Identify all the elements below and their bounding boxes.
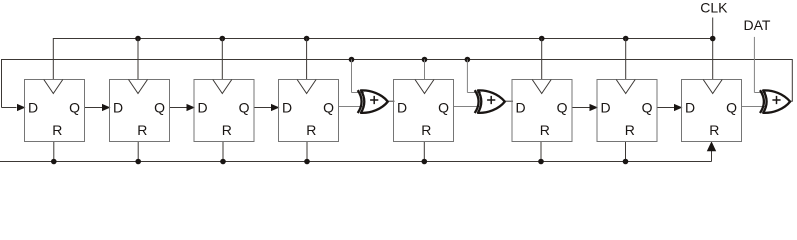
svg-text:Q: Q bbox=[69, 100, 80, 116]
wire: U7 Q output to U8 D input with arrowhead bbox=[658, 104, 683, 111]
junction on CLK bus at U2 + wire drop to U2 clock input bbox=[135, 36, 141, 80]
XOR gate G2 (between U5 and U6) with + symbol bbox=[475, 90, 505, 113]
junction on reset bus + wire stub from U2 R input bbox=[135, 142, 141, 165]
wire: U2 Q output to U3 D input with arrowhead bbox=[170, 104, 195, 111]
svg-text:D: D bbox=[198, 100, 208, 116]
svg-text:D: D bbox=[113, 100, 123, 116]
junction on reset bus + wire stub from U1 R input bbox=[51, 142, 57, 165]
svg-text:R: R bbox=[709, 122, 719, 138]
junction on CLK bus at U6 + wire drop to U6 clock input bbox=[539, 36, 545, 80]
svg-text:Q: Q bbox=[323, 100, 334, 116]
D flip-flop U8 (D, Q, R pins, clock triangle) bbox=[682, 80, 742, 142]
svg-text:D: D bbox=[601, 100, 611, 116]
wire: U1 Q output to U2 D input with arrowhead bbox=[85, 104, 111, 111]
junction on reset bus + wire stub from U5 R input bbox=[422, 142, 428, 165]
junction on reset bus + wire stub from U3 R input bbox=[220, 142, 226, 165]
wire: DAT input drop from DAT label to XOR G3 top input bbox=[754, 37, 766, 93]
svg-text:R: R bbox=[52, 122, 62, 138]
wire: U6 Q output to U7 D input with arrowhead bbox=[573, 104, 599, 111]
svg-text:R: R bbox=[137, 122, 147, 138]
svg-text:R: R bbox=[222, 122, 232, 138]
svg-text:Q: Q bbox=[438, 100, 449, 116]
D flip-flop U3 (D, Q, R pins, clock triangle) bbox=[194, 80, 254, 142]
svg-text:D: D bbox=[685, 100, 695, 116]
D flip-flop U6 (D, Q, R pins, clock triangle) bbox=[512, 80, 572, 142]
D flip-flop U1 (D, Q, R pins, clock triangle) bbox=[25, 80, 85, 142]
wire: feedback bus right leg up from XOR G3 output bbox=[791, 59, 793, 101]
svg-text:CLK: CLK bbox=[700, 0, 728, 15]
svg-text:D: D bbox=[516, 100, 526, 116]
wire: XOR G2 output to U6 D input bbox=[504, 100, 513, 102]
svg-text:R: R bbox=[306, 122, 316, 138]
junction on reset bus + wire stub from U7 R input bbox=[623, 142, 629, 165]
junction on feedback bus + wire clock stub down to U5 clock input bbox=[422, 57, 428, 80]
XOR gate G3 (DAT input XOR U8 Q) with + symbol bbox=[760, 90, 790, 113]
wire: U8 Q output to XOR G3 lower input bbox=[742, 106, 766, 108]
wire: XOR G3 output stub to feedback leg bbox=[790, 100, 793, 102]
junction on CLK bus at U3 + wire drop to U3 clock input bbox=[220, 36, 226, 80]
svg-text:Q: Q bbox=[239, 100, 250, 116]
svg-text:Q: Q bbox=[642, 100, 653, 116]
wire: feedback bus left leg down to U1 D input with arrowhead bbox=[2, 59, 26, 111]
wire: CLK bus (horizontal clock distribution line) bbox=[53, 38, 712, 40]
svg-text:Q: Q bbox=[726, 100, 737, 116]
D flip-flop U4 (D, Q, R pins, clock triangle) bbox=[279, 80, 339, 142]
svg-text:Q: Q bbox=[557, 100, 568, 116]
D flip-flop U5 (D, Q, R pins, clock triangle) bbox=[394, 80, 454, 142]
wire: U5 Q output to XOR G2 lower input bbox=[454, 106, 481, 108]
svg-text:D: D bbox=[28, 100, 38, 116]
svg-text:D: D bbox=[282, 100, 292, 116]
wire: CLK drop to U1 clock input bbox=[52, 38, 54, 80]
junction on feedback bus + wire drop to XOR G1 top input bbox=[349, 57, 364, 93]
svg-text:DAT: DAT bbox=[744, 17, 771, 33]
wire: U4 Q output to XOR G1 lower input bbox=[339, 106, 364, 108]
svg-text:Q: Q bbox=[154, 100, 165, 116]
wire: XOR G1 output to U5 D input bbox=[388, 100, 395, 102]
XOR gate G1 (between U4 and U5) with + symbol bbox=[358, 90, 388, 113]
junction on feedback bus + wire drop to XOR G2 top input bbox=[465, 57, 481, 93]
wire: feedback bus (horizontal, XOR G3 output routed back across top) bbox=[2, 59, 793, 61]
wire: U3 Q output to U4 D input with arrowhead bbox=[255, 104, 280, 111]
junction on reset bus + wire stub from U4 R input bbox=[304, 142, 310, 165]
svg-text:R: R bbox=[421, 122, 431, 138]
junction on CLK bus at U7 + wire drop to U7 clock input bbox=[623, 36, 629, 80]
svg-text:D: D bbox=[397, 100, 407, 116]
D flip-flop U7 (D, Q, R pins, clock triangle) bbox=[597, 80, 657, 142]
junction on reset bus + wire stub from U6 R input bbox=[538, 142, 544, 165]
wire: CLK vertical from CLK label down to U8 clock input, junction at CLK bus bbox=[710, 18, 716, 80]
wire: reset bus (horizontal along bottom) bbox=[0, 161, 712, 163]
svg-text:R: R bbox=[540, 122, 550, 138]
D flip-flop U2 (D, Q, R pins, clock triangle) bbox=[110, 80, 170, 142]
svg-text:R: R bbox=[625, 122, 635, 138]
junction on CLK bus at U4 + wire drop to U4 clock input bbox=[304, 36, 310, 80]
wire: reset bus riser to U8 R input with arrowhead bbox=[707, 141, 716, 161]
